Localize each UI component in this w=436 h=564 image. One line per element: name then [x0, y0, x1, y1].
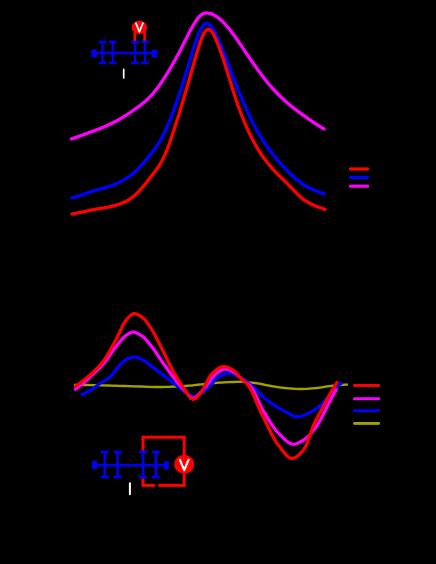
legend bottom blue line [355, 409, 379, 412]
curve top blue resonance [72, 24, 324, 198]
curve bottom blue (smallest oscillation) [82, 357, 341, 417]
junction J2 (bottom circuit) vertical bar with caps [114, 451, 122, 479]
junction J3 (bottom circuit) vertical bar with caps [139, 451, 147, 479]
voltmeter V (top circuit) [132, 21, 147, 34]
node label I (current, top circuit) [123, 69, 125, 78]
legend top magenta line [351, 185, 368, 188]
junction J1 (top circuit) vertical bar with caps [99, 41, 107, 65]
legend bottom red line [355, 384, 379, 387]
terminal pad right (top circuit) [152, 50, 157, 58]
curve bottom olive (flat reference) [75, 382, 347, 389]
junction J1 (bottom circuit) vertical bar with caps [101, 451, 109, 479]
wire: main horizontal line of bottom circuit [93, 464, 169, 467]
terminal pad left (bottom circuit) [92, 461, 97, 469]
wire: red loop bottom-right segment to voltmeter (bottom circuit) [159, 474, 185, 486]
terminal pad left (top circuit) [91, 49, 96, 57]
wire: voltmeter lead left (top circuit) [134, 31, 137, 41]
curve top magenta (widest resonance) [72, 13, 325, 139]
junction J4 (bottom circuit) vertical bar with caps [152, 451, 160, 479]
wire: red loop bottom-left stub from below J3 (bottom circuit) [143, 479, 155, 486]
junction J2 (top circuit) vertical bar with caps [109, 41, 117, 65]
wire: voltmeter lead right (top circuit) [143, 31, 146, 41]
node label I (current, bottom circuit) [129, 483, 131, 494]
legend bottom magenta line [355, 397, 379, 400]
top circuit: junction array with voltmeter [91, 21, 157, 78]
legend bottom olive line [355, 422, 379, 425]
curve bottom magenta [76, 332, 337, 444]
wire: red loop top segment (bottom circuit) [143, 437, 184, 455]
curve bottom red (largest oscillation) [76, 314, 338, 459]
terminal pad right (bottom circuit) [164, 461, 169, 469]
curve top red (narrowest resonance) [72, 30, 325, 215]
junction J4 (top circuit) vertical bar with caps [141, 41, 149, 65]
bottom circuit: junction array with voltmeter across J3 [92, 437, 194, 494]
junction J3 (top circuit) vertical bar with caps [131, 41, 139, 65]
legend top blue line [351, 176, 368, 179]
legend top red line [351, 167, 368, 170]
wire: main horizontal line of top circuit [92, 52, 157, 54]
voltmeter V (bottom circuit) [174, 455, 194, 474]
